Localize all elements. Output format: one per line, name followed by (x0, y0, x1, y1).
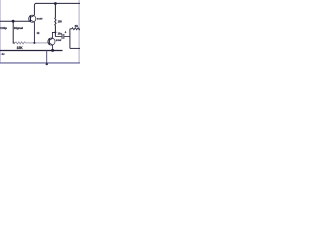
svg-text:Chip: Chip (0, 26, 7, 30)
wire Q1 collector drop from rail (34, 3, 36, 15)
node emitter/base junction (33, 42, 35, 44)
bottom frame border (0, 62, 80, 64)
wire speaker return to edge (70, 47, 80, 49)
wire capacitor to output node (64, 36, 70, 38)
wire 0V stub down (46, 51, 48, 65)
wire +V top rail (36, 2, 80, 4)
svg-text:Signal: Signal (14, 26, 23, 30)
wire input drop (13, 21, 15, 43)
wire 0V rail (0, 50, 63, 52)
wire node to capacitor (55, 36, 61, 38)
node collector junction (54, 31, 56, 33)
wire output vertical (69, 29, 71, 49)
resistor speaker zigzag to edge (70, 28, 80, 30)
wire Q2 emitter drop (52, 45, 54, 51)
svg-text:8R: 8R (75, 25, 78, 28)
transistor Q1 (29, 15, 36, 22)
wire input base lead (0, 20, 30, 22)
svg-text:+: + (65, 31, 67, 35)
right frame border (78, 0, 80, 63)
wire Q2 collector up to supply node (52, 32, 55, 38)
wire supply drop with resistor (55, 3, 56, 36)
svg-text:150: 150 (58, 20, 63, 24)
node 0V terminal dot (46, 63, 48, 65)
resistor R1 15K zigzag (15, 42, 25, 44)
wire Q1 emitter drop (33, 22, 35, 43)
capacitor C1 plates (62, 34, 65, 39)
node A input junction dot (12, 20, 15, 23)
left frame border (0, 0, 2, 63)
svg-text:15K: 15K (17, 46, 24, 50)
node emitter to 0V junction dot (51, 49, 54, 52)
node dot supply tap (54, 2, 57, 5)
transistor Q2 (48, 38, 55, 45)
wire R1 to Q2 base (25, 42, 48, 44)
svg-text:-0v: -0v (1, 52, 5, 56)
svg-text:10u: 10u (58, 31, 63, 35)
